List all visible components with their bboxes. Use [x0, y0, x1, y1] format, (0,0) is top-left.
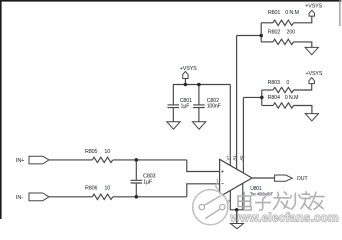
connector IN+	[29, 156, 49, 164]
capacitor C801	[168, 105, 180, 108]
wire R805 to step	[113, 159, 187, 161]
power +VSYS arrow (rail)	[183, 71, 188, 78]
svg-text:R806: R806	[85, 185, 97, 191]
wire IN- to R806	[49, 196, 92, 198]
wire R803 block left vertical	[261, 90, 263, 106]
junction dot C803 bottom	[135, 195, 139, 199]
svg-text:IN-: IN-	[16, 195, 23, 201]
ground C802	[192, 122, 205, 130]
svg-text:+VSYS: +VSYS	[180, 66, 197, 72]
frame left border	[0, 0, 2, 219]
wire R802 left stub	[261, 41, 273, 43]
wire R803 left stub	[262, 89, 273, 91]
watermark char 电	[238, 192, 251, 210]
junction dot rail C802	[197, 83, 201, 87]
wire IN+ to R805	[49, 159, 92, 161]
ground R802	[305, 47, 318, 54]
ground C801	[167, 122, 180, 130]
resistor R804	[273, 103, 293, 108]
svg-text:10: 10	[104, 185, 110, 191]
watermark logo sprout curl	[216, 179, 219, 191]
svg-text:+VSYS: +VSYS	[306, 71, 323, 77]
svg-text:IN+: IN+	[16, 158, 24, 164]
wire C801 bottom lead	[172, 108, 174, 122]
svg-text:OUT: OUT	[297, 176, 309, 182]
wire net R803/R804 feed vertical	[242, 97, 244, 173]
svg-text:0 N.M: 0 N.M	[285, 95, 299, 101]
svg-text:1µF: 1µF	[143, 179, 153, 185]
wire R806 to step	[113, 196, 187, 198]
frame top border	[0, 0, 341, 2]
resistor R801	[273, 20, 293, 25]
watermark logo rod upper	[204, 196, 219, 205]
junction dot C803 top	[135, 158, 139, 162]
watermark char 发	[273, 192, 290, 210]
watermark logo rod lower	[205, 209, 220, 219]
junction dot R803 block	[260, 96, 264, 100]
op-amp bottom pins to ground	[230, 183, 243, 223]
frame right border stub	[339, 0, 341, 26]
svg-text:200: 200	[287, 29, 296, 35]
wire feed horizontal to R801 block	[237, 35, 262, 37]
wire VSYS stem to rail	[184, 79, 186, 85]
wire R803 right to VSYS	[294, 84, 312, 90]
wire R802 right to ground	[294, 42, 312, 48]
connector OUT	[275, 175, 293, 181]
svg-text:0 N.M: 0 N.M	[285, 10, 299, 16]
wire step up to -input	[187, 184, 220, 197]
wire op-amp output to OUT	[252, 177, 275, 179]
op-amp U1 triangle	[220, 159, 252, 196]
watermark logo circle	[193, 179, 228, 225]
wire C802 bottom lead	[198, 108, 200, 122]
resistor R802	[273, 39, 293, 44]
wire V+ supply down to op-amp	[229, 85, 231, 166]
power +VSYS arrow (R803)	[309, 78, 314, 84]
op-amp - input marker	[221, 183, 223, 185]
svg-text:R804: R804	[268, 95, 280, 101]
ground op-amp (over watermark)	[236, 210, 238, 224]
watermark char 子	[255, 194, 271, 210]
svg-text:www.elecfans.com: www.elecfans.com	[230, 211, 339, 225]
svg-text:R802: R802	[268, 29, 280, 35]
watermark logo ring right	[220, 204, 225, 209]
capacitor C803	[131, 180, 142, 183]
wire feed horizontal to R803 block	[243, 96, 261, 98]
connector IN-	[29, 193, 49, 201]
svg-text:100nF: 100nF	[207, 104, 222, 110]
wire step down to +input	[187, 160, 220, 172]
wire R804 left stub	[262, 105, 273, 107]
resistor R803	[273, 87, 293, 92]
svg-text:V+: V+	[226, 155, 231, 161]
power +VSYS arrow (R801)	[309, 10, 314, 16]
svg-text:R803: R803	[268, 80, 280, 86]
wire R804 right to ground	[294, 106, 312, 114]
ground R804	[305, 114, 318, 121]
junction dot rail VSYS stem	[184, 83, 188, 87]
svg-text:10: 10	[104, 149, 110, 155]
wire C803 bottom lead	[135, 183, 137, 197]
watermark char 烧	[290, 191, 312, 209]
watermark char 友	[308, 192, 325, 210]
svg-text:R801: R801	[268, 10, 280, 16]
op-amp + input marker	[221, 170, 223, 172]
wire R801 right to VSYS	[294, 16, 312, 23]
wire R801 block left vertical	[260, 23, 262, 42]
svg-text:0: 0	[286, 80, 289, 86]
junction dot R801 block	[259, 34, 263, 38]
watermark logo ring left	[199, 204, 204, 209]
svg-text:1µF: 1µF	[181, 104, 191, 110]
junction op-amp ground	[235, 208, 239, 212]
wire C803 top lead	[135, 160, 137, 180]
wire net R801/R802 feed vertical	[236, 36, 238, 170]
capacitor C802	[193, 105, 205, 108]
svg-text:+VSYS: +VSYS	[305, 4, 322, 10]
wire R801 left stub	[261, 22, 273, 24]
wire supply rail	[173, 85, 230, 105]
resistor R805	[92, 157, 113, 162]
svg-text:R805: R805	[85, 149, 97, 155]
resistor R806	[92, 194, 113, 199]
wire C802 top lead	[198, 85, 200, 105]
